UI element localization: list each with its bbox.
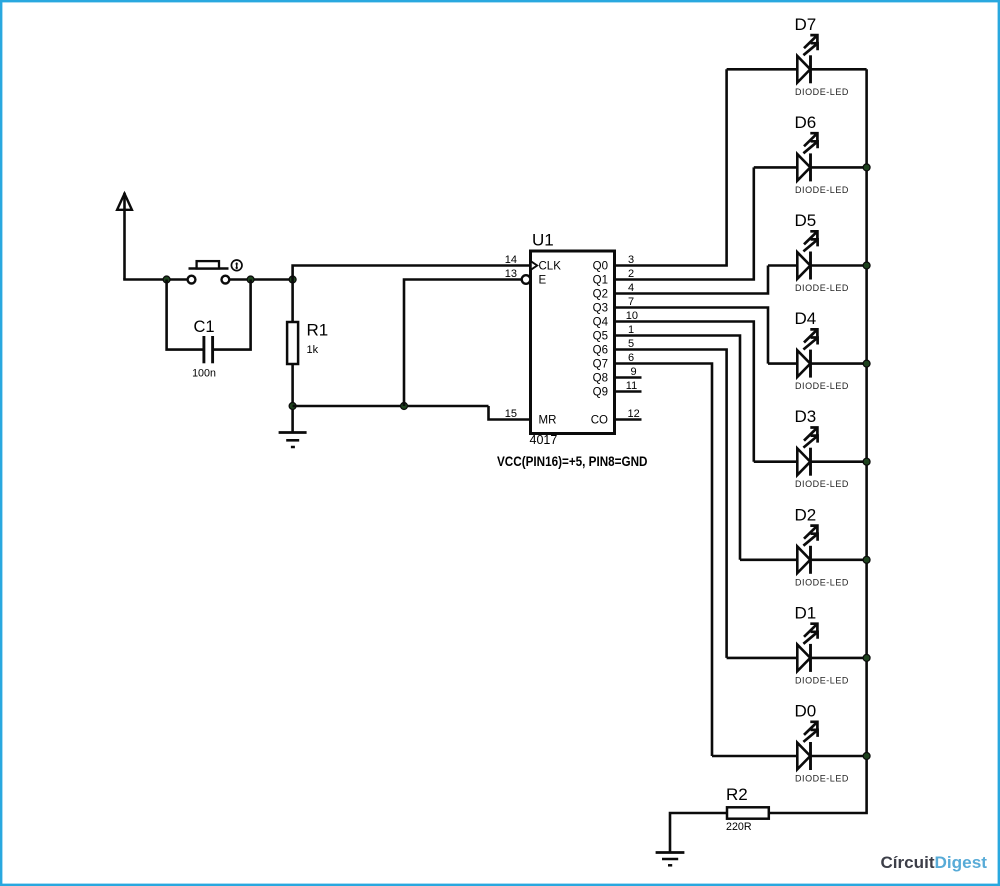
svg-text:6: 6 [628,352,634,364]
wire LED cathode bus [769,69,867,813]
svg-text:DIODE-LED: DIODE-LED [795,774,849,784]
wire Q1 (pin 2) to LED D6 [615,167,754,279]
node: R1 top junction [289,276,296,283]
node: bus junction at D5 [863,262,870,269]
svg-text:R1: R1 [307,321,329,340]
svg-text:R2: R2 [726,785,748,804]
wire Q7 (pin 6) to LED D0 [615,364,713,757]
svg-text:1k: 1k [307,344,319,356]
svg-text:11: 11 [626,380,637,392]
svg-text:Q7: Q7 [593,359,608,371]
LED D2 [740,505,867,587]
LED D0 [712,702,867,784]
svg-text:Q9: Q9 [593,387,608,399]
svg-text:DIODE-LED: DIODE-LED [795,185,849,195]
svg-text:Q6: Q6 [593,345,608,357]
power VCC arrow [117,193,132,280]
svg-text:U1: U1 [532,231,554,250]
wire CO stub (pin 12) [615,418,642,421]
push button (SPST momentary) [188,260,242,284]
wire VCC rail to button left contact [123,278,187,281]
svg-text:CLK: CLK [539,261,562,273]
svg-text:1: 1 [628,324,634,336]
wire Q2 (pin 4) to LED D5 [615,266,769,294]
svg-text:D1: D1 [795,603,817,622]
svg-text:Círcuit: Círcuit [881,853,935,872]
resistor R2 [726,785,769,833]
svg-text:MR: MR [539,415,557,427]
svg-text:D3: D3 [795,407,817,426]
ground symbol (below R1) [279,433,307,448]
svg-text:D0: D0 [795,702,817,721]
svg-text:Digest: Digest [935,853,988,872]
wire button right contact to R1 top [229,278,292,281]
svg-text:D5: D5 [795,211,817,230]
wire Q5 (pin 1) to LED D2 [615,336,741,560]
svg-text:CO: CO [591,415,608,427]
wire R2 left lead to ground [670,813,727,853]
svg-text:4: 4 [628,282,634,294]
svg-text:15: 15 [505,408,517,420]
svg-text:DIODE-LED: DIODE-LED [795,577,849,587]
wire Q4 (pin 10) to LED D3 [615,322,754,462]
svg-text:D7: D7 [795,15,817,34]
svg-text:DIODE-LED: DIODE-LED [795,283,849,293]
node: bus junction at D4 [863,360,870,367]
svg-text:Q8: Q8 [593,373,608,385]
svg-text:2: 2 [628,268,634,280]
svg-text:Q1: Q1 [593,275,608,287]
wire R1 bottom lead to ground [291,364,294,433]
wire C1 right leg [214,280,251,350]
svg-text:DIODE-LED: DIODE-LED [795,381,849,391]
wire Q9 stub (pin 11) [615,390,642,393]
wire Q3 (pin 7) to LED D4 [615,308,769,364]
wire Q0 (pin 3) to LED D7 [615,69,727,265]
resistor R1 [287,321,328,365]
wire R1 top to CLK pin 14 [293,266,531,280]
svg-text:D2: D2 [795,505,817,524]
svg-text:D6: D6 [795,113,817,132]
LED D3 [754,407,867,489]
wire jog down to MR pin 15 [489,406,531,420]
wire R1 top lead [291,280,294,323]
svg-text:220R: 220R [726,821,752,833]
svg-text:13: 13 [505,268,517,280]
node: VCC / C1 left junction [163,276,170,283]
svg-text:DIODE-LED: DIODE-LED [795,87,849,97]
svg-text:VCC(PIN16)=+5, PIN8=GND: VCC(PIN16)=+5, PIN8=GND [497,454,648,470]
svg-text:12: 12 [628,408,640,420]
capacitor C1 [192,318,216,380]
node: bus junction at D1 [863,654,870,661]
svg-text:Q5: Q5 [593,331,608,343]
svg-text:Q3: Q3 [593,303,608,315]
svg-text:100n: 100n [192,368,216,380]
node: bus junction at D2 [863,556,870,563]
svg-text:D4: D4 [795,309,817,328]
LED D5 [768,211,867,293]
svg-text:7: 7 [628,296,634,308]
svg-text:E: E [539,275,547,287]
svg-text:Q4: Q4 [593,317,609,329]
logo CircuitDigest [881,853,988,872]
LED D7 [727,15,867,97]
svg-text:DIODE-LED: DIODE-LED [795,675,849,685]
wire Q6 (pin 5) to LED D1 [615,350,727,658]
node: E/MR riser junction [401,403,408,410]
svg-text:Q0: Q0 [593,261,608,273]
LED D1 [727,603,867,685]
node: bus junction at D3 [863,458,870,465]
svg-text:10: 10 [626,310,638,322]
node: R1 bottom junction [289,403,296,410]
ground symbol (below R2) [656,853,685,866]
node: bus junction at D0 [863,753,870,760]
svg-text:C1: C1 [193,318,214,336]
svg-text:5: 5 [628,338,634,350]
node: bus junction at D6 [863,164,870,171]
LED D4 [768,309,867,391]
wire riser to E pin [404,280,521,407]
wire C1 left leg [167,280,203,350]
IC U1 4017 body [522,231,615,448]
wire R1 bottom to MR jog [293,405,489,408]
wire Q8 stub (pin 9) [615,376,642,379]
node: button right / C1 right junction [247,276,254,283]
svg-text:4017: 4017 [530,433,558,447]
svg-text:14: 14 [505,254,517,266]
svg-text:DIODE-LED: DIODE-LED [795,479,849,489]
svg-text:3: 3 [628,254,634,266]
LED D6 [754,113,867,195]
svg-text:9: 9 [631,366,637,378]
svg-text:Q2: Q2 [593,289,608,301]
